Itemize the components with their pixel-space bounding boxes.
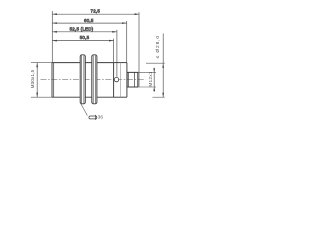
connector M12 (127, 72, 138, 87)
dimension 60.5 (52, 22, 126, 24)
extension line left common (51, 11, 53, 63)
dimension 52.5 (LED) (52, 31, 117, 33)
housing dia extension bottom (153, 96, 165, 98)
nut 2 (92, 55, 97, 104)
ring boundary (120, 63, 122, 98)
dimension 72.5 (52, 13, 139, 15)
extension line right 52.5 LED (116, 30, 118, 77)
extension line right 72.5 (138, 12, 140, 86)
sensor body outlines (52, 63, 127, 98)
extension line right 50.5 (113, 39, 115, 63)
svg-text:60,5: 60,5 (84, 18, 94, 23)
barrel chamfer line (53, 63, 55, 98)
connector edge extensions (138, 63, 165, 97)
rear housing end face (126, 63, 128, 98)
dimension M12x1 (153, 68, 155, 92)
barrel top edge (52, 62, 114, 64)
svg-text:52,5 (LED): 52,5 (LED) (70, 27, 94, 32)
step barrel end (113, 63, 115, 98)
svg-text:≤ Ø28,0: ≤ Ø28,0 (155, 35, 161, 58)
svg-text:36: 36 (98, 115, 104, 120)
extension line right 60.5 (126, 21, 128, 62)
centerline (41, 79, 146, 81)
svg-text:50,5: 50,5 (80, 35, 90, 40)
LED (114, 77, 118, 81)
leader nut size (81, 104, 88, 116)
svg-text:72,5: 72,5 (91, 9, 101, 14)
wrench symbol (89, 115, 97, 120)
extension top for M30 dia (31, 62, 52, 64)
dimension M30 dia (36, 63, 38, 98)
nut 1 (80, 55, 85, 104)
housing dia extension top (146, 62, 165, 64)
extension bottom for M30 dia (31, 96, 52, 98)
barrel bottom edge (52, 96, 114, 98)
svg-text:M30x1,5: M30x1,5 (30, 69, 35, 88)
svg-text:M12x1: M12x1 (148, 71, 154, 86)
barrel face (51, 63, 53, 98)
dimension diameter 28 (162, 34, 164, 98)
rear housing bottom edge (114, 96, 127, 98)
rear housing top edge (114, 62, 127, 64)
dimension 50.5 (52, 40, 113, 42)
